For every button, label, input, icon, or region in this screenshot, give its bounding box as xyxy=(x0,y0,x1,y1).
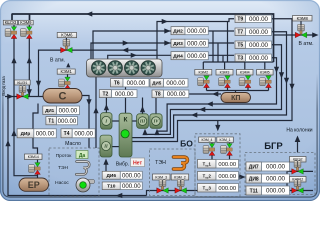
svg-text:000.00: 000.00 xyxy=(249,42,268,49)
wire vent header xyxy=(203,61,273,63)
sensor Т7 xyxy=(235,28,272,36)
svg-text:КЭМ8: КЭМ8 xyxy=(297,16,309,21)
svg-text:000.00: 000.00 xyxy=(74,130,93,137)
svg-text:Т2: Т2 xyxy=(102,91,108,97)
sensor Т8 xyxy=(152,90,189,98)
node arrow down wrap 2 xyxy=(279,72,284,78)
wire T9 wrap into compressor K lower xyxy=(132,19,292,142)
wire fan to DI3 T5 row xyxy=(91,43,234,59)
wire riser DI3 row to header xyxy=(217,44,219,62)
compressor К xyxy=(119,113,132,157)
wire stub KEM4 to header xyxy=(244,62,246,70)
svg-text:000.00: 000.00 xyxy=(218,186,236,192)
node arrow mid DI4 wire xyxy=(131,53,137,58)
valve label КШЭ3 xyxy=(3,20,17,25)
sensor Тос1 xyxy=(198,160,239,169)
wire T5 wrap into stage III xyxy=(145,45,282,135)
sensor Т6 xyxy=(111,79,150,87)
wire oil return riser xyxy=(95,77,97,148)
node arrow KP flow left xyxy=(212,91,218,96)
node arrow up on KShE3 riser low xyxy=(11,130,16,136)
vessel С separator xyxy=(43,89,82,104)
wire riser DI2 row to header xyxy=(212,31,214,62)
wire KEM5 drop xyxy=(268,88,270,91)
sensor Т9 xyxy=(235,15,272,23)
node arrow up into stage IV inlet xyxy=(154,129,159,135)
wire collector into KP xyxy=(235,91,237,93)
node arrow down wrap 4 xyxy=(289,84,294,90)
oil pump xyxy=(76,178,95,192)
wire branch into BO xyxy=(217,121,219,126)
valve label КЭМ2 xyxy=(195,70,212,76)
wire BGR to columns xyxy=(297,142,299,153)
svg-text:000.00: 000.00 xyxy=(115,91,134,98)
node arrow on upper center wire xyxy=(162,19,168,24)
node arrow into DI2 xyxy=(164,28,170,33)
svg-text:000.00: 000.00 xyxy=(166,80,185,87)
wire gas inlet line xyxy=(5,96,43,98)
indicator Да oil flow xyxy=(76,151,88,160)
wire riser T9 row to header xyxy=(227,22,229,63)
valve label КЭМ6 xyxy=(57,33,76,38)
compressor stage IV xyxy=(150,114,162,129)
node arrow up stage III outlet xyxy=(140,106,145,112)
svg-text:На колонки: На колонки xyxy=(286,128,312,134)
svg-text:ДИ8: ДИ8 xyxy=(249,176,259,182)
wire stage I to T2 xyxy=(105,98,107,113)
heater coil orange xyxy=(174,157,188,169)
svg-text:000.00: 000.00 xyxy=(127,80,146,87)
svg-text:Проток: Проток xyxy=(56,153,72,159)
svg-text:000.00: 000.00 xyxy=(218,162,236,168)
node arrow down C outlet xyxy=(86,99,91,105)
wire stage IV to T8 row xyxy=(155,98,157,114)
svg-text:КЭМ4: КЭМ4 xyxy=(240,71,250,75)
wire KShE2 box to valve xyxy=(297,162,299,164)
valve label КЭМ_1 xyxy=(217,137,234,143)
wire arrow into stage II xyxy=(105,162,107,172)
wire KEM6 box to valve xyxy=(65,38,67,43)
valve label КЭМ_2 xyxy=(171,174,189,180)
wire step to TEN booth line xyxy=(147,191,208,196)
svg-text:ДИр: ДИр xyxy=(21,131,31,136)
node arrow up on KEM9 riser xyxy=(27,57,32,63)
valve КЭМ5 xyxy=(260,76,272,88)
wire C drain step xyxy=(33,104,38,155)
vessel ЕР xyxy=(19,178,49,191)
svg-text:КЭМ_3: КЭМ_3 xyxy=(155,175,167,179)
wire KEM3 drop xyxy=(227,88,229,91)
sensor ДИ8 xyxy=(246,174,290,183)
wire KEM12 line xyxy=(287,190,314,192)
wire vent branch with KEM6 xyxy=(39,50,158,96)
node arrow down wrap 3 xyxy=(284,78,289,84)
svg-text:000.00: 000.00 xyxy=(218,174,236,180)
wire KEM4 drop xyxy=(247,88,249,91)
svg-text:ДИ5: ДИ5 xyxy=(152,80,161,85)
svg-text:000.00: 000.00 xyxy=(187,53,206,60)
valve label КЭМ14 xyxy=(25,154,43,160)
valve КШЭ2 xyxy=(292,161,304,174)
svg-text:ТЭН: ТЭН xyxy=(58,165,68,171)
svg-text:Т1: Т1 xyxy=(48,119,54,125)
node arrow up into stage III inlet xyxy=(142,129,147,135)
sensor ДИ4 xyxy=(171,52,208,60)
svg-text:Т9: Т9 xyxy=(237,17,243,23)
dashed box БО xyxy=(195,134,240,197)
valve КЭМ_3 xyxy=(157,180,169,193)
svg-text:ЕР: ЕР xyxy=(28,180,40,190)
svg-text:000.00: 000.00 xyxy=(36,130,55,137)
valve КШЭ1 xyxy=(17,86,29,99)
wire KEM8 vent line xyxy=(274,34,313,36)
svg-text:Т6: Т6 xyxy=(114,81,120,87)
svg-text:В атм.: В атм. xyxy=(298,41,313,47)
node arrow mid T5 wrap xyxy=(199,107,205,112)
sensor ДИ1 xyxy=(43,106,80,115)
svg-text:ДИ3: ДИ3 xyxy=(173,41,183,47)
svg-text:ДИ4: ДИ4 xyxy=(173,53,183,59)
wire KEM_4 box to valve xyxy=(211,143,213,144)
dashed box heater ТЭН xyxy=(150,149,196,196)
wire KEM_3 box to valve xyxy=(162,180,164,183)
node arrow up oil return xyxy=(93,107,98,113)
svg-text:Т10: Т10 xyxy=(107,184,116,190)
valve КЭМ12 xyxy=(292,180,304,193)
wire stage III to T2 row xyxy=(142,98,144,114)
wire KShE3 box to valve xyxy=(13,25,15,27)
wire KEM_1 box to valve xyxy=(229,143,231,144)
svg-text:КЭМ_4: КЭМ_4 xyxy=(201,138,212,142)
sensor Т4 xyxy=(61,129,95,138)
svg-text:000.00: 000.00 xyxy=(122,172,141,179)
svg-text:000.00: 000.00 xyxy=(167,91,186,98)
wire KEM14 to ER xyxy=(37,174,39,178)
svg-text:ДИ6: ДИ6 xyxy=(106,173,116,179)
svg-text:КЭМ6: КЭМ6 xyxy=(61,33,73,38)
svg-text:000.00: 000.00 xyxy=(266,164,285,171)
valve label КЭМ8 xyxy=(293,16,313,22)
svg-text:000.00: 000.00 xyxy=(249,55,268,62)
svg-text:БГР: БГР xyxy=(264,141,283,152)
oil heater coil xyxy=(76,162,89,175)
valve КЭМ9 xyxy=(20,27,32,39)
node arrow vent KEM1 up xyxy=(66,63,70,68)
wire riser below KShE3 xyxy=(13,38,15,148)
valve КЭМ6 xyxy=(61,39,73,52)
wire KEM8 box to valve xyxy=(300,21,302,27)
wire T7 wrap into compressor K xyxy=(132,32,287,138)
node arrow down on KEM9 riser xyxy=(27,89,32,95)
wire KShE2 line xyxy=(287,170,314,172)
sensor ДИ7 xyxy=(246,162,290,171)
valve label КЭМ12 xyxy=(290,177,307,183)
valve КЭМ8 xyxy=(295,24,307,37)
wire fan to DI4 T3 row xyxy=(108,55,234,59)
svg-text:000.00: 000.00 xyxy=(249,29,268,36)
wire KEM12 box to valve xyxy=(297,181,299,184)
valve КЭМ14 xyxy=(29,163,41,175)
node arrow mid T7 wrap xyxy=(191,112,197,117)
sensor Тос3 xyxy=(198,184,239,193)
svg-text:КЭМ_2: КЭМ_2 xyxy=(174,175,186,179)
valve КЭМ4 xyxy=(239,76,251,88)
svg-text:КП: КП xyxy=(231,95,240,102)
node arrow down on KEM6 branch xyxy=(36,81,41,87)
node arrow into BO box xyxy=(215,125,220,131)
sensor Т2 xyxy=(99,90,137,98)
wire KEM14 box to valve xyxy=(37,160,39,163)
wire left return riser xyxy=(8,97,147,196)
svg-text:II: II xyxy=(103,144,108,149)
wire collector above KP xyxy=(207,90,269,92)
wire stub KEM3 to header xyxy=(224,62,226,70)
svg-text:ДИ7: ДИ7 xyxy=(249,164,259,170)
svg-text:КЭМ14: КЭМ14 xyxy=(28,155,39,159)
valve label КШЭ1 xyxy=(15,80,31,85)
compressor stage II xyxy=(100,135,112,157)
svg-text:III: III xyxy=(139,119,145,124)
svg-text:БО: БО xyxy=(180,139,193,149)
valve КЭМ_2 xyxy=(175,180,187,193)
svg-text:000.00: 000.00 xyxy=(59,107,78,114)
wire K to stage III link xyxy=(132,120,137,122)
wire Tos2 to BGR xyxy=(239,176,240,178)
sensor ДИ2 xyxy=(171,27,208,35)
wire riser below KEM9 xyxy=(28,38,30,96)
dashed box oil system Масло xyxy=(49,148,99,196)
compressor stage III xyxy=(137,114,149,129)
valve КШЭ3 xyxy=(5,27,17,39)
sensor Т1 xyxy=(46,117,78,125)
wire T3 wrap into stage IV xyxy=(157,58,277,131)
svg-text:Вибр.: Вибр. xyxy=(116,161,129,167)
wire stub to KEM9 xyxy=(29,14,31,20)
wire KEM_2 box to valve xyxy=(180,180,182,183)
svg-text:КЭМ3: КЭМ3 xyxy=(220,71,230,75)
valve label КЭМ_4 xyxy=(199,137,216,143)
vessel КП xyxy=(221,93,251,103)
svg-text:ДИ1: ДИ1 xyxy=(45,108,55,113)
valve label КЭМ_3 xyxy=(153,174,171,180)
svg-text:Т4: Т4 xyxy=(64,131,70,137)
svg-text:КШЭ1: КШЭ1 xyxy=(17,81,27,85)
valve КЭМ_4 xyxy=(203,144,215,156)
svg-text:КЭМ_1: КЭМ_1 xyxy=(220,138,231,142)
node arrow mid T3 wrap xyxy=(207,101,213,106)
svg-text:Вход газа: Вход газа xyxy=(1,76,6,96)
wire KEM_1 drop to Tos1 xyxy=(229,155,231,159)
wire main top header xyxy=(12,14,274,62)
node arrow up stage II inlet xyxy=(103,159,108,165)
node arrow up on return riser xyxy=(5,140,10,146)
wire stage II to K link xyxy=(112,146,119,148)
valve КЭМ_1 xyxy=(221,144,233,156)
compressor stage I xyxy=(101,113,113,129)
valve КЭМ1 xyxy=(59,77,71,89)
valve label КЭМ4 xyxy=(237,70,254,76)
svg-text:000.00: 000.00 xyxy=(266,176,285,183)
svg-text:000.00: 000.00 xyxy=(266,188,285,195)
valve label КЭМ1 xyxy=(57,69,75,74)
svg-text:КЭМ1: КЭМ1 xyxy=(61,69,73,74)
valve КЭМ2 xyxy=(198,76,210,88)
node arrow into DI3 xyxy=(164,40,170,45)
svg-text:В атм.: В атм. xyxy=(50,58,65,64)
dashed box БГР xyxy=(245,153,315,195)
svg-text:Да: Да xyxy=(79,153,86,159)
svg-text:КЭМ2: КЭМ2 xyxy=(198,71,208,75)
svg-text:Т3: Т3 xyxy=(237,56,243,62)
svg-text:000.00: 000.00 xyxy=(187,28,206,35)
wire KEM1 box to valve xyxy=(67,74,69,77)
sensor ДИр xyxy=(17,129,56,138)
node arrow flow left on bottom line xyxy=(116,193,122,198)
svg-text:Насос: Насос xyxy=(55,180,69,186)
node arrow up to columns xyxy=(295,136,301,143)
svg-text:I: I xyxy=(104,119,107,124)
wire KEM1 to separator C xyxy=(67,88,69,89)
sensor ДИ3 xyxy=(171,39,208,47)
sensor Т11 xyxy=(246,186,290,195)
wire KEM9 box to valve xyxy=(28,25,30,27)
wire KEM_4 drop to Tos1 xyxy=(211,155,213,159)
svg-text:000.00: 000.00 xyxy=(122,183,141,190)
node arrow down wrap 1 xyxy=(274,67,279,73)
wire stage I to K link xyxy=(112,120,119,122)
node arrow mid DI3 wire xyxy=(123,40,129,45)
wire BGR internal riser xyxy=(286,171,288,190)
svg-text:ТЭН: ТЭН xyxy=(155,160,166,166)
wire compressor K to T6 xyxy=(125,87,127,113)
svg-text:000.00: 000.00 xyxy=(58,118,77,125)
node arrow up on KShE3 riser xyxy=(11,57,16,63)
valve label КШЭ2 xyxy=(290,157,307,163)
node arrow top header flow left xyxy=(86,11,92,16)
svg-text:КШЭ3: КШЭ3 xyxy=(5,20,17,25)
wire KP to T8 line xyxy=(189,93,221,95)
svg-text:000.00: 000.00 xyxy=(249,16,268,23)
svg-text:Масло: Масло xyxy=(65,141,81,147)
sensor Т10 xyxy=(102,182,142,190)
valve label КЭМ3 xyxy=(216,70,233,76)
node arrow up stage I outlet xyxy=(104,104,109,110)
svg-text:КЭМ5: КЭМ5 xyxy=(260,71,270,75)
wire stub KEM2 to header xyxy=(202,62,204,70)
svg-text:К: К xyxy=(124,117,128,124)
wire riser DI4 row to header xyxy=(222,56,224,62)
wire stub KEM5 to header xyxy=(264,62,266,70)
sensor ДИ5 xyxy=(150,79,188,87)
node arrow into BGR xyxy=(239,174,245,179)
sensor Т3 xyxy=(235,54,272,62)
indicator Нет vibration xyxy=(131,158,145,167)
wire fan to DI2 T7 row xyxy=(93,31,234,59)
wire KEM2 drop xyxy=(206,88,208,91)
svg-text:С: С xyxy=(59,91,67,103)
node arrow gas inlet xyxy=(7,94,13,99)
fan cooler unit xyxy=(87,59,163,77)
wire ER feed from riser xyxy=(14,148,38,176)
svg-text:ДИ2: ДИ2 xyxy=(173,28,183,34)
valve КЭМ3 xyxy=(219,76,231,88)
svg-text:Т7: Т7 xyxy=(237,30,243,36)
svg-text:000.00: 000.00 xyxy=(187,40,206,47)
sensor Тос2 xyxy=(198,172,239,181)
valve label КЭМ9 xyxy=(19,20,34,25)
svg-text:Нет: Нет xyxy=(133,161,143,167)
wire fan to T9 row upper xyxy=(157,19,234,59)
svg-text:Т11: Т11 xyxy=(250,188,259,194)
svg-text:Т5: Т5 xyxy=(237,43,243,49)
sensor ДИ6 xyxy=(102,171,142,179)
svg-text:Т8: Т8 xyxy=(155,92,161,98)
node arrow vent to atmosphere right xyxy=(312,32,318,37)
valve label КЭМ5 xyxy=(257,70,274,76)
wire C outlet to compressor suction xyxy=(82,96,89,149)
wire stub to KShE3 xyxy=(11,14,13,21)
svg-text:КЭМ9: КЭМ9 xyxy=(20,20,32,25)
sensor Т5 xyxy=(235,41,272,49)
node arrow on vent branch flow left xyxy=(122,48,128,53)
